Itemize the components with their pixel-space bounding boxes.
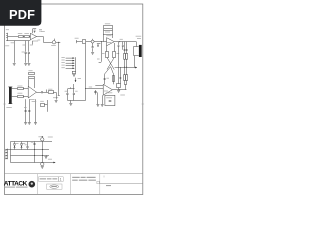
wire P2 lower leg (92, 43, 94, 47)
connector J3 pin 1 label (61, 56, 64, 59)
wire U1 output (37, 36, 44, 38)
resistor R6 (18, 96, 24, 98)
wire rail C end stub (46, 155, 48, 158)
wire crossover B (107, 58, 114, 70)
wire signal arrow down (75, 78, 76, 82)
wire speaker - lead (134, 56, 136, 67)
resistor R5 (18, 88, 24, 90)
document title word 2 (81, 177, 86, 178)
wire P1 to node A (56, 42, 60, 44)
connector J2 label (MIC) (6, 106, 11, 109)
resistor R15 (113, 76, 115, 82)
capacitor C9 value (65, 90, 67, 93)
capacitor C12 (97, 44, 101, 47)
resistor R11 value (105, 22, 110, 25)
wire U3 to R13 (106, 46, 108, 52)
op-amp U4 (power amp) (103, 84, 112, 95)
speaker LS1 (134, 47, 139, 56)
power rail D with arrow (11, 162, 56, 163)
connector J3 shield box (72, 71, 75, 73)
wire C23 lower (118, 46, 120, 67)
diode D1 label (16, 142, 19, 145)
net label (IN) (5, 44, 9, 47)
net label (75, 37, 79, 40)
RC network top rail (68, 87, 75, 88)
wire R2 to U1 (29, 36, 31, 38)
ATTACK logo subtext (5, 187, 16, 188)
capacitor C8 (28, 111, 30, 112)
power net label (48, 136, 53, 139)
wire rail join (10, 142, 12, 163)
wire C18 bottom (27, 148, 29, 150)
ground (101, 105, 104, 107)
wire C24 stub (122, 46, 124, 49)
ground (55, 101, 58, 103)
op-amp U2 (28, 86, 36, 98)
wire LP1 to LP2 (42, 142, 44, 163)
resistor R20 (126, 75, 128, 81)
connector J3 pin 5 (66, 68, 75, 69)
node A (57, 41, 60, 44)
resistor R7 (29, 73, 35, 75)
connector J4 (power input) (6, 149, 7, 160)
wire R5 to U2 (23, 88, 28, 90)
wire C left leg lower (67, 95, 69, 101)
resistor R17 (124, 54, 126, 60)
wire U3 output (114, 41, 136, 43)
power net label (48, 158, 52, 161)
wire U4 output (112, 89, 126, 91)
resistor R19 (124, 75, 126, 81)
wire C3 top (28, 41, 30, 52)
capacitor C18 (26, 147, 28, 148)
svg-text:PDF: PDF (9, 7, 35, 22)
wire output ladder B (126, 42, 128, 85)
ground (24, 64, 27, 66)
wire R12 to output side (112, 34, 114, 38)
diode D2 (21, 142, 23, 150)
capacitor C18 polarity (25, 143, 27, 146)
amp U3 type label (106, 34, 111, 37)
wire inverting input (8, 40, 31, 42)
ground (41, 167, 44, 169)
document title word 1 (72, 177, 80, 178)
border tick bottom (103, 176, 105, 178)
pin label (38, 39, 41, 42)
oval text (51, 186, 56, 187)
wire C24 upper (122, 42, 124, 45)
net label (97, 58, 100, 61)
ground (96, 105, 99, 107)
diode D2 label (23, 142, 26, 145)
wire feedback left leg (28, 79, 30, 86)
resistor R2 (25, 36, 30, 38)
capacitor C22 (92, 47, 94, 48)
wire U1 power (32, 29, 34, 34)
wire to P2 (86, 41, 91, 43)
resistor R9 (41, 104, 45, 107)
connector J3 pin 4 (66, 65, 75, 66)
resistor R1 (19, 36, 24, 38)
capacitor C1 (34, 30, 36, 33)
capacitor C2 value (22, 51, 25, 54)
ground (69, 104, 72, 106)
junction (41, 154, 44, 157)
resistor R9 value (40, 100, 44, 103)
capacitor C9 (66, 94, 68, 95)
wire U2 output (37, 92, 42, 94)
resistor R1 value (18, 32, 23, 35)
resistor R12 (104, 31, 113, 35)
wire to R21 (118, 68, 120, 84)
wire C2 top (25, 41, 27, 52)
title block divider 3 (99, 174, 101, 195)
wire drop (56, 92, 58, 99)
ground (24, 123, 27, 125)
capacitor C10 (73, 94, 75, 95)
power rail B (11, 149, 50, 151)
wire C3 bottom (28, 53, 30, 62)
wire ladder merge (125, 85, 127, 90)
capacitor C15 (124, 50, 126, 51)
title cell bottom row box (47, 184, 62, 189)
wire R21 to ground (118, 88, 120, 90)
ground (28, 123, 31, 125)
wire R8 out (53, 92, 56, 94)
resistor R14 (113, 52, 116, 58)
lamp LP1 label (38, 135, 41, 138)
resistor R18 (126, 54, 128, 60)
junction feedback (84, 87, 87, 90)
op-amp U1 label (33, 40, 39, 43)
wire C22 to ground (92, 48, 94, 52)
wire R11-R12 right (112, 29, 114, 30)
op-amp U1 (30, 33, 36, 39)
RC network bottom rail (68, 100, 86, 102)
potentiometer P2 (91, 40, 94, 43)
wire C right leg lower (73, 95, 75, 101)
sheet cell text (106, 185, 111, 186)
resistor R6 value (17, 92, 22, 95)
speaker value (137, 37, 141, 40)
net stub (99, 62, 102, 64)
wire node A down (58, 42, 60, 95)
value label above wire (120, 38, 123, 41)
ground (73, 75, 76, 77)
supply label line 2 (39, 30, 42, 33)
wire C right leg (73, 89, 75, 93)
wire supply stub (33, 28, 36, 30)
capacitor C7 value (24, 106, 27, 109)
ground (34, 123, 37, 125)
junction (123, 66, 126, 69)
wire J2 ring (12, 96, 18, 98)
capacitor C14 (109, 101, 112, 102)
title cell text c (52, 178, 57, 179)
wire J2 tip (12, 88, 18, 90)
junction stub (46, 90, 48, 93)
node D (118, 88, 121, 91)
IC U5 label (106, 91, 112, 94)
wire U4 input A (95, 85, 103, 87)
resistor R8 (49, 91, 54, 94)
wire C6 to R8 (43, 92, 48, 94)
border tick left (3, 103, 6, 105)
wire C8 run (29, 99, 31, 122)
wire to speaker + (136, 42, 138, 47)
capacitor C11 (coupling) (83, 40, 86, 44)
connector J3 pin 2 (66, 60, 75, 61)
wire R9 out (44, 104, 47, 106)
resistor R13 (106, 52, 109, 58)
power rail A (11, 141, 53, 143)
capacitor C2 (25, 53, 27, 54)
border tick right (142, 103, 145, 105)
resistor R2 value (24, 32, 29, 35)
document title word 4 (72, 180, 78, 181)
connector J4 pin (5, 152, 6, 153)
wire output ladder A (124, 42, 126, 85)
title cell text b (47, 178, 52, 179)
capacitor C21 (120, 78, 122, 79)
op-amp U3 (power amp) (107, 38, 115, 46)
wire bus resume tick (77, 40, 83, 43)
svg-text:1: 1 (60, 178, 62, 182)
value label (22, 44, 25, 47)
connector J4 pin (5, 149, 6, 150)
op-amp U2 label (30, 98, 35, 101)
node C (118, 40, 121, 43)
capacitor C20 (104, 79, 106, 80)
net label (89, 86, 92, 89)
connector J4 pin (5, 158, 6, 159)
connector J3 pin 3 label (61, 61, 64, 64)
wire C left leg (67, 89, 69, 93)
feedback lattice lower V (105, 67, 114, 85)
potentiometer P1 label (51, 44, 56, 47)
ground (13, 64, 16, 66)
node B (100, 40, 103, 43)
wire P2 to U3 (94, 41, 106, 43)
PDF badge (0, 0, 41, 26)
junction (41, 148, 44, 151)
wire J1 to R1 (8, 36, 18, 38)
wire R6 to U2 (23, 96, 28, 98)
svg-text:ATTACK: ATTACK (4, 180, 28, 187)
resistor R13 value (102, 52, 105, 55)
capacitor C23 (118, 46, 120, 47)
connector J2 (mic jack) (9, 87, 12, 104)
wire P1 wiper (54, 39, 56, 41)
capacitor C5 (29, 77, 35, 79)
wire C19 run (34, 142, 36, 163)
diode D1 (14, 142, 16, 150)
junction (33, 154, 36, 157)
wire R drop (14, 41, 16, 63)
sheet border frame (5, 4, 143, 195)
junction (125, 66, 128, 69)
title block divider 2 (69, 174, 71, 195)
ground (45, 157, 48, 159)
capacitor C10 value (75, 90, 77, 93)
net label at node A drop (58, 95, 60, 97)
capacitor C6 (42, 91, 43, 93)
resistor R8 value (48, 88, 52, 91)
wire crossover A (107, 58, 114, 70)
junction (33, 148, 36, 151)
speaker LS1 label (136, 35, 142, 38)
wire bus to P1 (43, 42, 52, 44)
wire feedback return (85, 44, 87, 101)
title cell top row box (39, 177, 59, 182)
wire C18 top (27, 142, 29, 147)
wire to ground (70, 100, 72, 103)
capacitor C19 (33, 144, 35, 145)
value label (106, 77, 109, 80)
op-amp U4 label (104, 90, 108, 93)
capacitor C7 (25, 111, 27, 112)
lamp LP1 (41, 138, 44, 141)
bias label (32, 100, 37, 103)
ground (91, 53, 94, 55)
capacitor C16 (126, 50, 128, 51)
connector J1 label (6, 28, 9, 31)
wire C23 upper (118, 42, 120, 45)
op-amp U3 label (107, 41, 111, 44)
value label (120, 94, 125, 97)
title block outline (4, 173, 142, 175)
lamp LP2 (41, 162, 44, 165)
wire out to R14 (114, 43, 116, 52)
connector J4 pin (5, 155, 6, 156)
IC outline U5 (105, 95, 115, 105)
wire U4 input B (86, 88, 104, 90)
wire output drop (43, 37, 45, 43)
wire R11-R12 left (103, 29, 105, 30)
connector J1 (line input) (6, 33, 7, 41)
resistor R14 value (116, 52, 119, 55)
connector J3 pin 3 (66, 63, 75, 64)
connector J3 (5-pin header) (75, 57, 77, 71)
wire R12 to input (103, 34, 105, 42)
capacitor C19 label (31, 141, 34, 144)
small check box (97, 181, 99, 184)
wire speaker return with arrow (115, 67, 137, 68)
wire C2 bottom (25, 53, 27, 62)
wire C7 run (25, 99, 27, 122)
wire J4 to rails (8, 149, 11, 151)
capacitor C13 (94, 90, 97, 95)
document title word 3 (87, 177, 96, 178)
document title word 5 (79, 180, 88, 181)
wire feedback right leg (34, 79, 36, 88)
net label (78, 77, 81, 80)
wire bias stub (32, 41, 34, 45)
wire bias run (35, 99, 37, 122)
IC U5 text (106, 96, 112, 99)
resistor R7 value (28, 69, 32, 72)
wire R1 to R2 (23, 36, 25, 38)
title cell text a (40, 178, 47, 179)
wire R9 drop (47, 100, 49, 112)
wire P2 wiper (92, 39, 94, 40)
connector J3 pin 2 label (61, 59, 64, 62)
potentiometer P1 (52, 41, 55, 44)
wire from header arrow (73, 84, 75, 89)
net label under wire (11, 41, 14, 44)
capacitor C3 (28, 53, 30, 54)
wire damping branch (120, 67, 122, 83)
wire node B down (101, 42, 103, 62)
resistor R5 value (17, 85, 22, 88)
connector J3 pin 5 label (61, 66, 64, 69)
connector J3 pin 1 (66, 58, 75, 59)
ATTACK logo emblem (29, 181, 36, 188)
value label (30, 44, 33, 47)
supply label line 1 (39, 28, 42, 31)
title block divider 1 (36, 174, 38, 195)
resistor R11 (104, 26, 113, 29)
capacitor C24 (122, 46, 124, 47)
power rail C (11, 155, 50, 157)
net label (53, 96, 58, 99)
ground (117, 91, 120, 93)
wire U4 gnd leg B (102, 95, 104, 104)
connector J3 pin 4 label (61, 64, 64, 67)
net label (41, 30, 45, 33)
ground (27, 64, 30, 66)
oval mark (50, 185, 59, 188)
resistor R12 label (105, 31, 110, 34)
title block right divider row (100, 183, 143, 185)
document title word 6 (88, 180, 96, 181)
wire U4 gnd leg A (97, 92, 99, 104)
resistor R21 (117, 84, 121, 88)
